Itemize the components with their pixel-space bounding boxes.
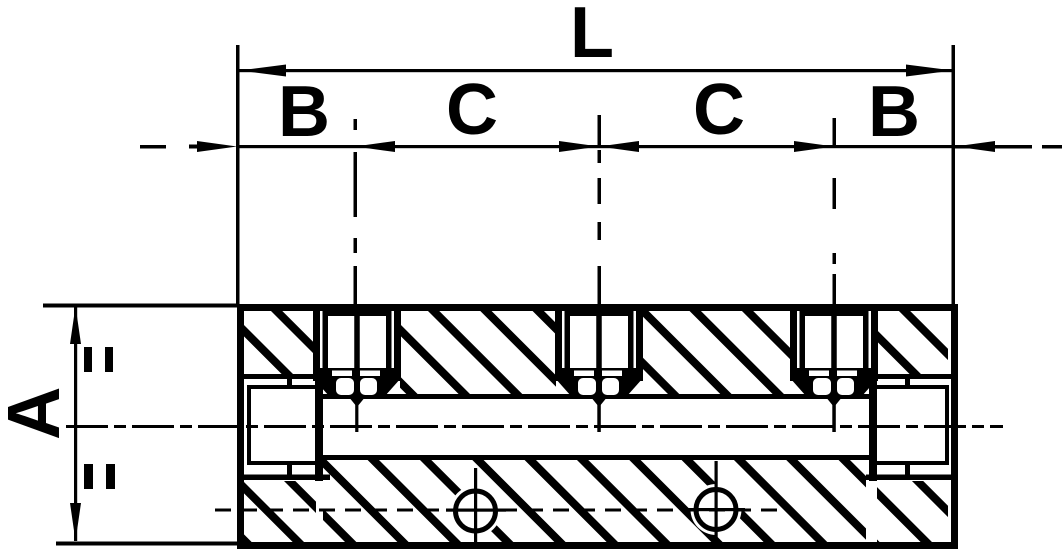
block top edge [237,304,958,311]
right outside tail dash [1042,145,1062,149]
plug 2 centerline [597,115,601,432]
svg-text:A: A [0,387,75,440]
L arrow right [906,65,953,77]
hatch bottom band [323,460,866,542]
L arrow left [239,65,286,77]
left port thread tick bottom [287,465,292,476]
hatch top between plug2 and plug3 [642,311,791,394]
hatch bottom-left below left port [244,481,316,542]
A dimension line [74,306,77,541]
svg-text:C: C [693,70,745,150]
right hole centerline horizontal solid [687,508,745,511]
plug 3 [790,306,878,396]
right port end wall [869,374,877,481]
bottom holes centerline [215,509,790,512]
plug 2 [555,306,643,396]
svg-text:B: B [868,72,920,152]
hatch bottom-right below right port [877,481,948,542]
A arrow down [70,503,81,541]
left hole centerline horizontal solid [446,509,506,512]
bore centerline [66,425,1003,428]
L extension line right [952,45,956,304]
L extension line left [236,45,240,304]
left hole centerline vertical [474,468,477,545]
hatch top between plug1 and plug2 [400,311,556,394]
equals mark lower [84,464,93,489]
mounting hole left clearance [450,486,501,537]
A arrow up [70,306,81,344]
right hole centerline vertical [715,461,718,549]
mounting hole right clearance [691,484,742,535]
plug 3 tip point [825,396,843,407]
block left edge [237,304,244,549]
left port outer top line [237,374,330,379]
left port end wall [315,374,323,481]
svg-text:L: L [570,0,614,73]
right port thread tick top [905,377,910,388]
plug 1 tip point [348,396,366,407]
equals mark upper [84,347,92,372]
bore bottom line [318,455,871,460]
right outside arrow [955,145,1032,149]
mounting hole left [456,491,496,531]
right port outer bottom line [866,475,955,481]
L dimension line [239,69,953,72]
arrows at middle centerline [559,141,599,152]
right port outer top line [866,374,955,379]
plug 1 centerline [354,119,359,432]
right port thread tick bottom [905,465,910,476]
BCCB dimension line [237,145,955,148]
left port thread tick top [287,377,292,388]
left port outer bottom line [237,475,330,481]
mounting hole right [696,490,736,530]
A top extension line [43,304,237,308]
hatch top-left above left port [244,311,314,375]
plug 3 centerline [832,118,836,432]
block bottom edge [237,542,958,549]
block right edge [951,304,958,549]
left outside arrow [189,145,199,149]
bore top line [318,394,871,399]
right port inner thread rect [875,387,947,463]
arrow at third plug centerline [794,141,834,152]
left port inner thread rect [249,387,319,463]
svg-text:B: B [278,72,330,152]
A bottom extension line [56,542,237,546]
arrow at first plug centerline [355,141,395,152]
svg-text:C: C [446,70,498,150]
plug 2 tip point [590,396,608,407]
plug 1 [313,306,401,396]
hatch top-right corner above right port [877,311,948,374]
left outside tail dash [140,145,166,149]
